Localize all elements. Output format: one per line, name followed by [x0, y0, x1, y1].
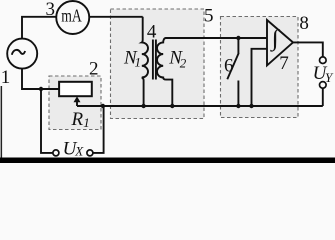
wire: mA meter to transformer primary: [89, 16, 142, 18]
wire: node to UX left terminal: [41, 89, 53, 153]
AC source 1: [7, 39, 37, 69]
integrator lower input wire: [252, 49, 268, 106]
wire: node down to UX right terminal: [93, 106, 104, 153]
UY bottom terminal: [320, 82, 327, 89]
svg-text:1: 1: [83, 115, 90, 130]
svg-text:6: 6: [224, 56, 234, 77]
switch 6 top stub: [237, 38, 239, 54]
junction node wiper/UX right: [101, 104, 105, 108]
svg-text:1: 1: [135, 55, 142, 70]
svg-text:1: 1: [1, 67, 11, 88]
junction lower input: [249, 104, 253, 108]
wire: op-amp output to UY top terminal: [293, 42, 323, 57]
op-amp integrator 7: [267, 20, 293, 65]
wire: AC source bottom to potentiometer R1: [22, 69, 59, 89]
UX left terminal: [53, 150, 59, 156]
svg-text:R: R: [71, 109, 84, 130]
junction switch tap on top wire: [236, 36, 240, 40]
transformer secondary N2 winding and wire to integrator: [157, 38, 267, 106]
transformer primary N1 winding: [142, 17, 148, 106]
switch 6 bottom stub: [237, 81, 239, 107]
transformer core: [153, 40, 156, 80]
junction N2 bottom: [170, 104, 174, 108]
dashed box 8 (integrator block): [221, 17, 299, 118]
svg-text:2: 2: [180, 56, 187, 71]
wire: AC source top to mA meter: [22, 17, 56, 39]
junction N1 bottom: [141, 104, 145, 108]
svg-text:3: 3: [45, 0, 55, 20]
page edge artifact left: [1, 86, 2, 158]
AC sine symbol: [12, 50, 25, 55]
svg-text:8: 8: [299, 13, 309, 34]
svg-text:mA: mA: [61, 6, 82, 26]
node junction on AC-R1 wire: [39, 87, 43, 91]
dashed box 2 (potentiometer block): [49, 76, 101, 130]
svg-text:5: 5: [204, 6, 214, 27]
UY top terminal: [320, 57, 327, 64]
potentiometer R1 body: [59, 82, 92, 96]
wire: UY bottom terminal to rail: [322, 88, 324, 106]
R1 wiper arrow: [74, 96, 81, 102]
svg-text:2: 2: [89, 58, 99, 79]
UX right terminal: [87, 150, 93, 156]
svg-text:4: 4: [147, 22, 157, 43]
bottom rail wire: [77, 105, 323, 107]
junction switch bottom: [236, 104, 240, 108]
svg-text:X: X: [74, 144, 84, 159]
R1 wiper stem: [76, 101, 78, 106]
dashed box 5 (transformer block): [111, 9, 205, 119]
switch 6 blade: [227, 53, 238, 79]
page edge bar bottom: [0, 158, 335, 164]
milliammeter 3: [56, 1, 89, 34]
svg-text:7: 7: [279, 53, 289, 74]
